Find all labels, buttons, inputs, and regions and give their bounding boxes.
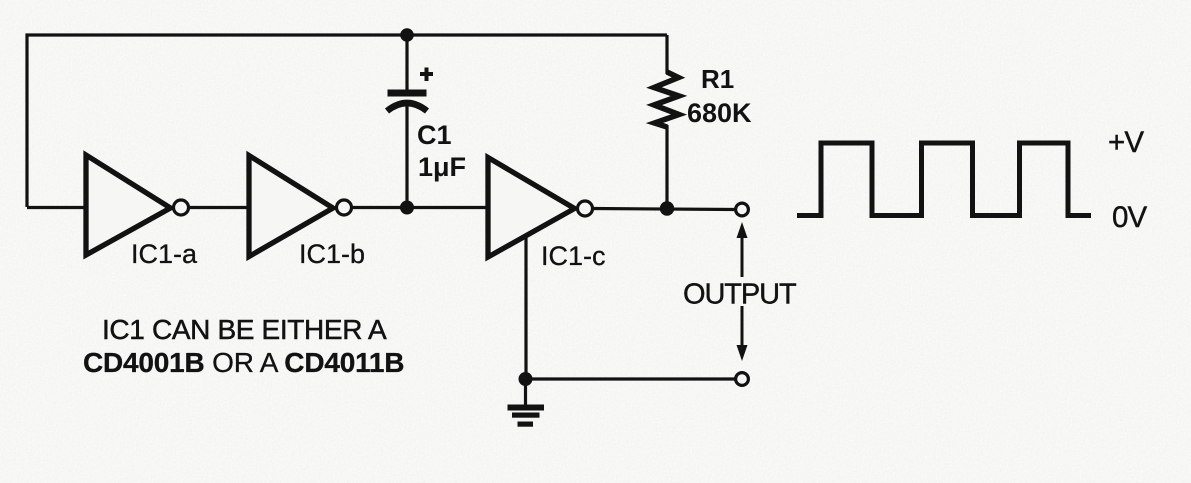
bubble IC1-c [578, 201, 593, 216]
capacitor C1 curved plate [387, 103, 427, 111]
inverter IC1-b [249, 156, 333, 257]
resistor R1 branch wire upper [665, 35, 668, 74]
svg-text:IC1-c: IC1-c [541, 241, 606, 271]
wire: into IC1-a input [27, 206, 88, 209]
wire: IC1-b to IC1-c through node [352, 206, 490, 209]
svg-text:IC1 CAN BE EITHER A: IC1 CAN BE EITHER A [102, 314, 387, 345]
inverter IC1-c [488, 158, 575, 258]
wire: IC1-a to IC1-b [189, 206, 251, 209]
node dot at ground [519, 372, 533, 386]
output terminal bottom (open circle) [736, 373, 749, 386]
arrow down toward bottom terminal [741, 306, 744, 347]
node dot at R1 bottom [660, 201, 674, 215]
capacitor C1 branch wire upper [405, 35, 408, 91]
node dot top rail / C1 [400, 28, 414, 42]
wire: top feedback rail [27, 35, 667, 207]
bubble IC1-a [174, 200, 189, 215]
ground bar 2 [512, 413, 540, 418]
svg-text:+V: +V [1108, 126, 1144, 159]
square wave trace [797, 143, 1091, 216]
svg-text:1μF: 1μF [418, 152, 466, 182]
resistor R1 branch wire lower [665, 125, 668, 208]
svg-text:OUTPUT: OUTPUT [683, 279, 797, 311]
svg-text:IC1-a: IC1-a [131, 239, 198, 269]
arrow up toward top terminal [741, 236, 744, 277]
wire: IC1-c second input down [524, 234, 527, 379]
resistor R1 zigzag [654, 72, 679, 127]
svg-text:680K: 680K [687, 98, 752, 128]
output terminal top (open circle) [736, 203, 749, 216]
capacitor C1 branch wire lower [405, 101, 408, 207]
svg-text:R1: R1 [701, 64, 734, 94]
wire: ground rail to bottom terminal [526, 377, 736, 380]
wire: IC1-c output to terminal [593, 209, 735, 210]
svg-text:CD4001B OR A CD4011B: CD4001B OR A CD4011B [83, 347, 404, 378]
ground stem [524, 379, 527, 405]
svg-text:C1: C1 [417, 120, 452, 150]
node dot at C1 bottom [400, 201, 414, 215]
ground bar 3 [518, 422, 534, 427]
svg-text:IC1-b: IC1-b [299, 239, 365, 269]
capacitor C1 plus sign [420, 68, 433, 82]
svg-text:0V: 0V [1112, 201, 1148, 234]
capacitor C1 top plate [388, 90, 427, 97]
ground bar 1 [508, 405, 545, 411]
inverter IC1-a [86, 155, 171, 255]
bubble IC1-b [337, 200, 352, 215]
